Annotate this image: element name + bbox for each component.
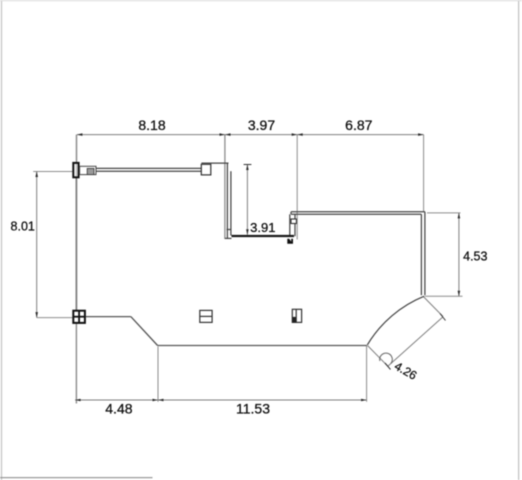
- svg-text:3.91: 3.91: [250, 220, 275, 235]
- svg-text:11.53: 11.53: [236, 400, 270, 416]
- svg-text:4.48: 4.48: [105, 400, 132, 416]
- svg-text:4.26: 4.26: [392, 359, 420, 383]
- svg-text:6.87: 6.87: [345, 117, 372, 133]
- svg-text:4.53: 4.53: [463, 250, 487, 264]
- svg-text:3.97: 3.97: [248, 117, 275, 133]
- svg-text:8.18: 8.18: [138, 117, 165, 133]
- svg-text:8.01: 8.01: [11, 220, 35, 234]
